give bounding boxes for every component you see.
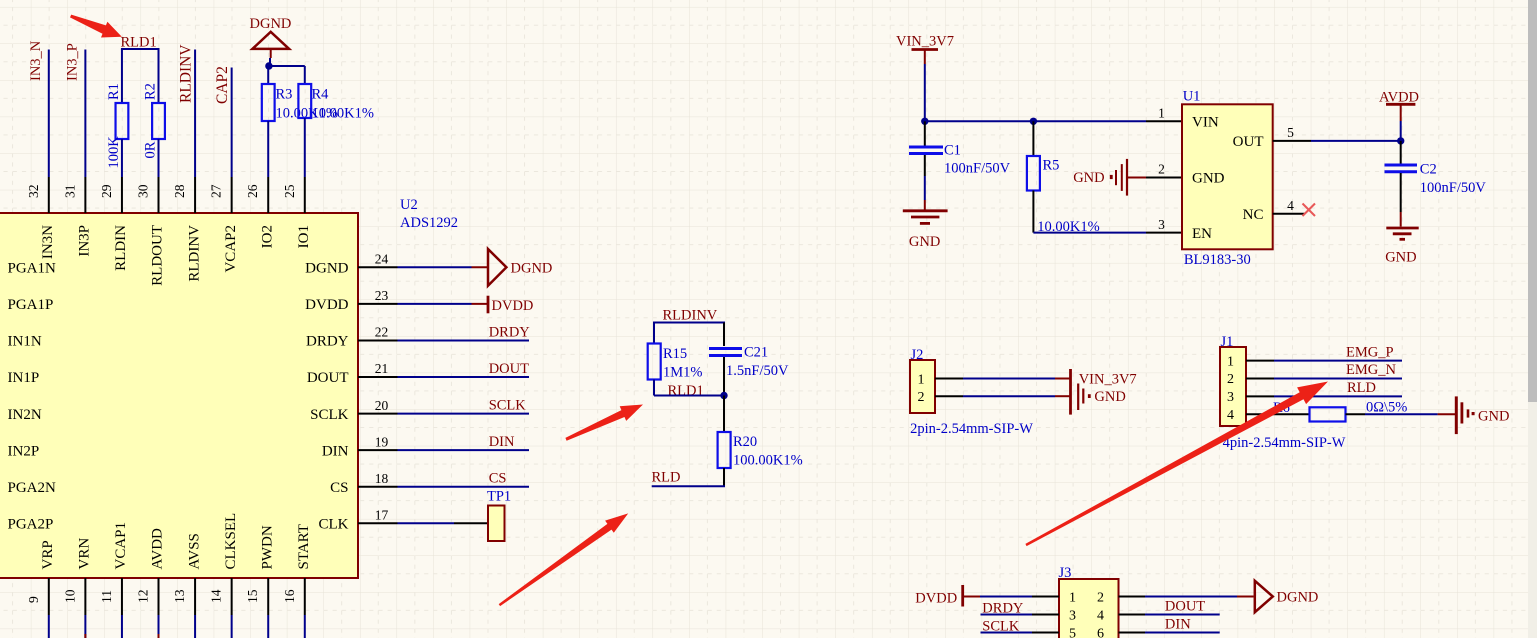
wire xyxy=(653,323,655,344)
pin 2 xyxy=(1119,596,1146,598)
svg-text:U1: U1 xyxy=(1183,89,1201,105)
wire xyxy=(963,395,1055,397)
wire EMG_N xyxy=(1274,378,1402,380)
svg-text:TP1: TP1 xyxy=(487,489,511,505)
pin 3 xyxy=(1146,232,1182,234)
svg-text:DGND: DGND xyxy=(1277,590,1319,606)
wire xyxy=(269,58,271,66)
pin TP1 xyxy=(454,522,488,524)
pin 25 xyxy=(304,177,306,213)
wire xyxy=(1032,121,1034,156)
scrollbar track xyxy=(1528,0,1537,638)
svg-text:VIN_3V7: VIN_3V7 xyxy=(896,34,954,50)
svg-text:VIN: VIN xyxy=(1192,115,1219,131)
wire xyxy=(158,139,160,177)
wire OUT to AVDD xyxy=(1311,140,1401,142)
svg-text:32: 32 xyxy=(26,185,41,199)
svg-text:R3: R3 xyxy=(276,87,293,103)
svg-text:ADS1292: ADS1292 xyxy=(400,215,458,231)
wire xyxy=(924,155,926,176)
wire xyxy=(1400,212,1402,227)
wire DRDY xyxy=(398,339,530,341)
svg-text:RLDOUT: RLDOUT xyxy=(150,225,166,286)
svg-text:EN: EN xyxy=(1192,226,1212,242)
wire xyxy=(980,596,1032,598)
svg-text:DVDD: DVDD xyxy=(492,298,534,314)
svg-text:4: 4 xyxy=(1227,408,1234,423)
wire xyxy=(84,615,86,638)
pin 20 xyxy=(358,413,398,415)
svg-text:C21: C21 xyxy=(744,345,768,361)
svg-text:DOUT: DOUT xyxy=(489,361,529,377)
svg-text:GND: GND xyxy=(1478,409,1509,425)
resistor R20 xyxy=(718,432,731,468)
svg-text:DIN: DIN xyxy=(489,434,515,450)
wire xyxy=(48,615,50,638)
svg-text:START: START xyxy=(296,524,312,569)
svg-text:R5: R5 xyxy=(1043,158,1060,174)
svg-text:R15: R15 xyxy=(663,346,687,362)
svg-text:3: 3 xyxy=(1158,217,1165,232)
svg-text:GND: GND xyxy=(909,234,940,250)
svg-text:CLK: CLK xyxy=(319,516,349,532)
svg-text:IN3P: IN3P xyxy=(77,225,93,257)
svg-text:RLDIN: RLDIN xyxy=(113,225,129,271)
svg-text:OUT: OUT xyxy=(1233,134,1264,150)
svg-text:DGND: DGND xyxy=(305,261,348,277)
wire xyxy=(924,64,926,121)
svg-text:IN3N: IN3N xyxy=(40,225,56,259)
svg-text:1M1%: 1M1% xyxy=(663,365,702,381)
svg-text:R1: R1 xyxy=(106,83,122,100)
svg-text:SCLK: SCLK xyxy=(310,407,349,423)
wire xyxy=(472,266,489,268)
pin 4 xyxy=(1273,213,1305,215)
svg-text:12: 12 xyxy=(136,590,151,604)
svg-text:AVSS: AVSS xyxy=(186,533,202,569)
wire xyxy=(1400,141,1402,164)
resistor R6 xyxy=(1310,407,1346,421)
wire xyxy=(1055,395,1071,397)
svg-text:4: 4 xyxy=(1287,198,1294,213)
wire DGND xyxy=(1145,596,1237,598)
svg-text:CAP2: CAP2 xyxy=(214,66,231,104)
svg-text:5: 5 xyxy=(1069,626,1076,638)
wire RLD1 bracket xyxy=(121,48,160,50)
wire xyxy=(304,66,306,84)
pin 16 xyxy=(304,578,306,615)
wire SCLK xyxy=(398,413,530,415)
pin 14 xyxy=(231,578,233,615)
wire CS xyxy=(398,486,530,488)
svg-text:11: 11 xyxy=(99,590,114,603)
wire xyxy=(653,322,725,324)
wire xyxy=(1400,121,1402,141)
wire DGND xyxy=(398,266,472,268)
power DGND symbol xyxy=(252,32,289,49)
svg-text:IO1: IO1 xyxy=(296,225,312,248)
wire xyxy=(723,396,725,433)
resistor R2 xyxy=(152,103,165,139)
ground GND symbol xyxy=(903,211,948,224)
wire xyxy=(267,121,269,177)
svg-text:14: 14 xyxy=(209,589,224,603)
pin 3 xyxy=(1246,395,1274,397)
wire RLD xyxy=(1274,395,1402,397)
svg-text:DGND: DGND xyxy=(511,261,553,277)
pin 3 xyxy=(1032,614,1059,616)
wire xyxy=(1365,413,1438,415)
testpoint TP1 xyxy=(488,506,505,542)
svg-text:RLDINV: RLDINV xyxy=(186,225,202,282)
ground GND symbol pointing left xyxy=(1110,159,1127,196)
regulator U1 body xyxy=(1182,104,1273,249)
wire xyxy=(121,49,123,103)
svg-text:16: 16 xyxy=(282,589,297,603)
wire xyxy=(304,615,306,638)
wire xyxy=(158,615,160,638)
svg-text:RLD1: RLD1 xyxy=(668,383,704,399)
svg-text:GND: GND xyxy=(1073,170,1104,186)
svg-text:IN2P: IN2P xyxy=(8,443,40,459)
power DGND symbol xyxy=(488,249,506,286)
pin 29 xyxy=(121,177,123,213)
svg-text:U2: U2 xyxy=(400,197,418,213)
svg-text:PGA1N: PGA1N xyxy=(8,261,57,277)
svg-text:2: 2 xyxy=(1158,162,1165,177)
wire xyxy=(270,49,272,58)
wire DOUT xyxy=(398,376,530,378)
wire xyxy=(924,200,926,210)
svg-text:RLDINV: RLDINV xyxy=(178,44,195,103)
pin 26 xyxy=(267,177,269,213)
svg-text:C2: C2 xyxy=(1420,162,1437,178)
wire xyxy=(924,50,926,65)
svg-text:31: 31 xyxy=(62,185,77,199)
wire RLD xyxy=(652,485,725,487)
svg-text:17: 17 xyxy=(375,507,389,522)
wire xyxy=(924,176,926,200)
wire xyxy=(1346,413,1366,415)
svg-text:VCAP1: VCAP1 xyxy=(113,522,129,570)
svg-text:AVDD: AVDD xyxy=(150,528,166,570)
resistor R4 xyxy=(298,84,311,118)
svg-text:1: 1 xyxy=(1158,106,1165,121)
svg-text:100nF/50V: 100nF/50V xyxy=(1420,180,1487,196)
svg-text:CLKSEL: CLKSEL xyxy=(223,513,239,570)
ground GND symbol pointing right xyxy=(1456,396,1474,434)
wire xyxy=(1438,413,1455,415)
svg-text:BL9183-30: BL9183-30 xyxy=(1184,252,1251,268)
capacitor C1 xyxy=(909,147,943,154)
pin 23 xyxy=(358,303,398,305)
wire xyxy=(268,65,305,67)
pin 18 xyxy=(358,486,398,488)
svg-text:DOUT: DOUT xyxy=(307,370,349,386)
svg-text:VRP: VRP xyxy=(40,540,56,569)
wire xyxy=(472,303,489,305)
svg-text:1: 1 xyxy=(918,372,925,387)
svg-text:2: 2 xyxy=(918,390,925,405)
red arrow pointing to J1 RLD xyxy=(1025,382,1328,547)
svg-text:IN3_P: IN3_P xyxy=(64,43,80,81)
wire maroon tip pin 10 xyxy=(84,634,86,638)
pin 32 xyxy=(48,177,50,213)
red arrow pointing to RLD1 top-left xyxy=(70,15,122,38)
pin 31 xyxy=(84,177,86,213)
svg-text:24: 24 xyxy=(375,252,389,267)
pin 12 xyxy=(158,578,160,615)
pin 11 xyxy=(121,578,123,615)
wire DIN xyxy=(398,449,530,451)
power DVDD bar symbol xyxy=(961,585,964,607)
wire maroon tip pin 12 xyxy=(158,634,160,638)
wire xyxy=(158,49,160,103)
wire DVDD xyxy=(398,303,472,305)
svg-text:EMG_N: EMG_N xyxy=(1346,362,1396,378)
pin 13 xyxy=(194,578,196,615)
capacitor C21 xyxy=(709,349,742,356)
wire CLK xyxy=(398,522,455,524)
connector J1 body xyxy=(1220,347,1246,426)
wire xyxy=(231,615,233,638)
svg-text:DOUT: DOUT xyxy=(1165,599,1205,615)
svg-text:C1: C1 xyxy=(944,143,961,159)
svg-text:IN1N: IN1N xyxy=(8,334,42,350)
svg-text:R20: R20 xyxy=(733,434,757,450)
svg-text:RLD: RLD xyxy=(1347,380,1376,396)
svg-text:6: 6 xyxy=(1097,626,1104,638)
wire xyxy=(194,615,196,638)
svg-text:19: 19 xyxy=(375,434,389,449)
svg-text:GND: GND xyxy=(1094,389,1125,405)
svg-text:9: 9 xyxy=(26,596,41,603)
wire xyxy=(1237,596,1254,598)
svg-text:PGA1P: PGA1P xyxy=(8,297,54,313)
svg-text:DRDY: DRDY xyxy=(306,334,349,350)
svg-text:10: 10 xyxy=(62,589,77,603)
power DVDD bar symbol xyxy=(487,296,490,314)
pin 30 xyxy=(158,177,160,213)
svg-text:1.5nF/50V: 1.5nF/50V xyxy=(726,363,789,379)
pin 1 xyxy=(935,378,963,380)
wire xyxy=(1032,191,1034,233)
pin 17 xyxy=(358,522,398,524)
pin 24 xyxy=(358,266,398,268)
svg-text:RLDINV: RLDINV xyxy=(663,308,718,324)
ground GND symbol xyxy=(1386,228,1418,239)
wire EMG_P xyxy=(1274,360,1402,362)
capacitor C2 xyxy=(1385,165,1418,172)
op-amp U2 ADS1292 IC body xyxy=(0,213,358,578)
svg-text:GND: GND xyxy=(1192,171,1225,187)
svg-text:VIN_3V7: VIN_3V7 xyxy=(1079,372,1137,388)
pin 28 xyxy=(194,177,196,213)
pin 2 xyxy=(1246,378,1274,380)
power AVDD bar symbol xyxy=(1386,103,1415,106)
pin 15 xyxy=(267,578,269,615)
no-connect X marker xyxy=(1303,204,1316,217)
svg-text:22: 22 xyxy=(375,325,389,340)
junction xyxy=(921,118,928,125)
svg-text:3: 3 xyxy=(1069,608,1076,623)
wire xyxy=(121,615,123,638)
svg-text:20: 20 xyxy=(375,398,389,413)
svg-text:0Ω\5%: 0Ω\5% xyxy=(1366,400,1407,416)
wire xyxy=(1400,173,1402,212)
svg-text:30: 30 xyxy=(136,184,151,198)
svg-text:2: 2 xyxy=(1227,372,1234,387)
pin 9 xyxy=(48,578,50,615)
svg-text:4: 4 xyxy=(1097,608,1104,623)
wire xyxy=(723,357,725,396)
svg-text:2: 2 xyxy=(1097,590,1104,605)
pin 22 xyxy=(358,339,398,341)
svg-text:EMG_P: EMG_P xyxy=(1346,344,1394,360)
pin 21 xyxy=(358,376,398,378)
svg-text:23: 23 xyxy=(375,288,389,303)
svg-text:DVDD: DVDD xyxy=(915,591,957,607)
svg-text:DRDY: DRDY xyxy=(489,324,531,340)
wire DRDY xyxy=(981,614,1033,616)
wire xyxy=(267,615,269,638)
svg-text:IN3_N: IN3_N xyxy=(28,40,44,81)
svg-text:15: 15 xyxy=(245,589,260,603)
power DGND symbol xyxy=(1255,581,1273,612)
pin 4 xyxy=(1119,614,1146,616)
pin 27 xyxy=(231,177,233,213)
svg-text:PWDN: PWDN xyxy=(259,525,275,569)
scrollbar thumb xyxy=(1528,0,1537,402)
pin 4 xyxy=(1246,413,1310,415)
wire xyxy=(121,139,123,177)
svg-text:100K: 100K xyxy=(106,136,122,169)
svg-text:100nF/50V: 100nF/50V xyxy=(944,161,1011,177)
svg-text:R2: R2 xyxy=(143,83,159,100)
svg-text:21: 21 xyxy=(375,361,389,376)
junction xyxy=(1030,118,1037,125)
svg-text:PGA2N: PGA2N xyxy=(8,480,57,496)
svg-text:SCLK: SCLK xyxy=(489,398,527,414)
connector J3 body xyxy=(1059,579,1119,638)
wire xyxy=(654,395,724,397)
svg-text:3: 3 xyxy=(1227,390,1234,405)
svg-text:PGA2P: PGA2P xyxy=(8,516,54,532)
wire xyxy=(304,118,306,177)
resistor R1 xyxy=(116,103,129,139)
wire xyxy=(723,323,725,347)
wire RLDINV xyxy=(194,50,196,178)
wire CAP2 xyxy=(231,68,233,178)
pin 5 xyxy=(1032,632,1059,634)
svg-text:28: 28 xyxy=(172,184,187,198)
power VIN_3V7 bar symbol xyxy=(912,48,939,51)
red arrow pointing to RLD wire xyxy=(499,513,629,606)
svg-text:R4: R4 xyxy=(312,87,330,103)
pin 5 xyxy=(1273,140,1311,142)
svg-text:VCAP2: VCAP2 xyxy=(223,225,239,273)
svg-text:NC: NC xyxy=(1243,207,1264,223)
junction xyxy=(720,392,727,399)
svg-text:CS: CS xyxy=(489,471,507,487)
svg-text:DVDD: DVDD xyxy=(305,297,348,313)
power VIN_3V7 bar symbol xyxy=(1069,369,1072,388)
junction xyxy=(265,62,272,69)
svg-text:5: 5 xyxy=(1287,125,1294,140)
svg-text:10.00K1%: 10.00K1% xyxy=(312,106,374,122)
svg-text:GND: GND xyxy=(1385,250,1416,266)
pin 1 xyxy=(1246,360,1274,362)
pin 6 xyxy=(1119,632,1146,634)
wire xyxy=(723,468,725,486)
wire xyxy=(267,66,269,84)
wire xyxy=(924,121,926,146)
svg-text:IN1P: IN1P xyxy=(8,370,40,386)
wire EN xyxy=(1033,232,1146,234)
svg-text:2pin-2.54mm-SIP-W: 2pin-2.54mm-SIP-W xyxy=(910,421,1033,437)
svg-text:0R: 0R xyxy=(143,141,159,158)
svg-text:13: 13 xyxy=(172,589,187,603)
ground GND symbol pointing right xyxy=(1071,384,1091,415)
wire xyxy=(653,380,655,396)
svg-text:100.00K1%: 100.00K1% xyxy=(733,453,803,469)
connector J2 body xyxy=(910,360,935,413)
svg-text:1: 1 xyxy=(1069,590,1076,605)
wire SCLK xyxy=(981,632,1033,634)
pin 19 xyxy=(358,449,398,451)
pin 1 xyxy=(1032,596,1059,598)
resistor R3 xyxy=(262,84,275,121)
resistor R5 xyxy=(1027,156,1040,191)
wire IN3_P xyxy=(84,50,86,178)
pin 1 xyxy=(1146,120,1182,122)
wire xyxy=(963,596,980,598)
svg-text:26: 26 xyxy=(245,184,260,198)
wire VIN_3V7 to U1 xyxy=(925,120,1146,122)
pin 2 xyxy=(935,395,963,397)
red arrow pointing to RLD1 middle xyxy=(565,405,643,441)
svg-text:DGND: DGND xyxy=(250,16,292,32)
wire xyxy=(963,378,1055,380)
wire IN3_N xyxy=(48,50,50,178)
pin 10 xyxy=(84,578,86,615)
wire DIN xyxy=(1145,632,1220,634)
svg-text:25: 25 xyxy=(282,184,297,198)
wire DOUT xyxy=(1145,614,1220,616)
svg-text:29: 29 xyxy=(99,184,114,198)
wire xyxy=(1055,378,1071,380)
svg-text:VRN: VRN xyxy=(77,538,93,570)
svg-text:1: 1 xyxy=(1227,354,1234,369)
svg-text:4pin-2.54mm-SIP-W: 4pin-2.54mm-SIP-W xyxy=(1223,435,1346,451)
svg-text:18: 18 xyxy=(375,471,389,486)
svg-text:DIN: DIN xyxy=(322,443,349,459)
wire xyxy=(1400,104,1402,121)
svg-text:IO2: IO2 xyxy=(259,225,275,248)
wire xyxy=(1128,177,1146,179)
svg-text:27: 27 xyxy=(209,184,224,198)
junction xyxy=(1397,137,1404,144)
resistor R15 xyxy=(648,344,661,380)
svg-text:RLD: RLD xyxy=(652,470,681,486)
svg-text:DIN: DIN xyxy=(1165,617,1191,633)
svg-text:IN2N: IN2N xyxy=(8,407,42,423)
pin 2 xyxy=(1146,177,1182,179)
svg-text:CS: CS xyxy=(330,480,348,496)
